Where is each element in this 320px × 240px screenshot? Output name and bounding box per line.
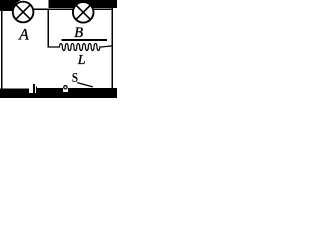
wire: junction vertical [48,10,49,47]
wire: left border [1,0,2,89]
bottom black band [0,88,117,98]
svg-text:L: L [77,53,86,68]
lamp A [13,2,34,23]
svg-text:B: B [74,25,83,41]
top-left black blob [0,0,21,11]
switch right post [36,87,37,93]
switch knob [64,86,67,89]
wire: top [1,9,113,10]
inductor L coil [48,43,112,50]
svg-text:S: S [72,71,78,86]
switch left post [33,84,35,93]
svg-text:A: A [18,27,29,44]
iron core line [62,39,108,41]
switch blade [77,83,93,87]
top black band [49,0,117,8]
lamp B [73,2,94,23]
wire: right border [112,8,114,89]
